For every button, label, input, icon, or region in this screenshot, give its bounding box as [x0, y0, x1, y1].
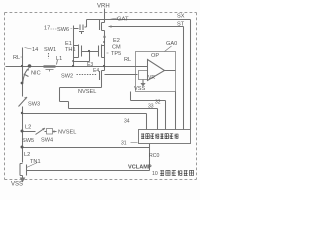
svg-text:RL: RL [13, 55, 20, 61]
svg-text:TN1: TN1 [30, 159, 41, 165]
svg-text:NVSEL: NVSEL [58, 130, 76, 136]
svg-text:VSS: VSS [11, 182, 23, 188]
svg-text:E2: E2 [113, 38, 120, 44]
svg-text:33: 33 [148, 104, 154, 110]
svg-text:L2: L2 [24, 152, 30, 158]
svg-text:L1: L1 [56, 56, 62, 62]
svg-text:SW3: SW3 [28, 102, 40, 108]
svg-text:RL: RL [124, 57, 131, 63]
svg-text:RC0: RC0 [149, 153, 159, 159]
svg-text:31: 31 [121, 141, 127, 147]
svg-text:14: 14 [32, 47, 38, 53]
svg-text:SW4: SW4 [41, 138, 53, 144]
svg-text:VR: VR [148, 75, 155, 81]
svg-text:32: 32 [155, 100, 161, 106]
svg-text:34: 34 [124, 119, 130, 125]
svg-text:SX: SX [177, 14, 185, 20]
svg-text:VSS: VSS [134, 86, 145, 92]
svg-text:SW6: SW6 [57, 27, 69, 33]
svg-text:SW1: SW1 [44, 47, 56, 53]
svg-text:L2: L2 [25, 125, 31, 131]
svg-text:SW2: SW2 [61, 74, 73, 80]
svg-text:ST: ST [177, 22, 185, 28]
svg-text:TH1: TH1 [65, 47, 76, 53]
svg-text:17: 17 [44, 26, 50, 32]
svg-text:OP: OP [151, 53, 159, 59]
svg-text:VCLAMP: VCLAMP [128, 165, 152, 171]
svg-text:TP5: TP5 [111, 51, 121, 57]
svg-text:CM: CM [112, 45, 121, 51]
svg-text:10: 10 [152, 171, 158, 177]
svg-text:GA0: GA0 [166, 41, 177, 47]
svg-text:E4: E4 [93, 68, 99, 74]
svg-text:SW5: SW5 [22, 138, 34, 144]
svg-text:NVSEL: NVSEL [78, 89, 96, 95]
svg-text:VRH: VRH [97, 4, 110, 10]
svg-text:NIC: NIC [31, 71, 41, 77]
svg-text:GAT: GAT [117, 17, 129, 23]
